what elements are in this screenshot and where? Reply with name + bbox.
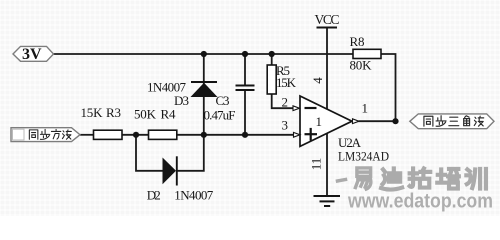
wire R3 to R4 [122, 134, 149, 136]
svg-text:0.47uF: 0.47uF [204, 107, 236, 122]
resistor R8 [353, 49, 381, 58]
svg-text:3V: 3V [22, 46, 42, 63]
wire op-amp output [359, 120, 396, 122]
svg-text:2: 2 [282, 94, 289, 109]
capacitor C3 [236, 86, 255, 91]
power VCC [317, 27, 338, 29]
junction R5 top [269, 51, 275, 57]
wire D2 cathode to node A [177, 135, 204, 171]
junction C3 top [242, 51, 248, 57]
wire port to R3 [80, 134, 94, 136]
port sync square wave (tongbu fangbo) [11, 128, 80, 142]
junction C3 bottom [242, 132, 248, 138]
wire 3V rail [54, 53, 354, 55]
wire D3 branch [203, 54, 205, 135]
svg-text:1N4007: 1N4007 [174, 188, 214, 203]
junction output node [392, 118, 398, 124]
svg-text:R8: R8 [350, 34, 365, 49]
junction D3 top [201, 51, 207, 57]
svg-text:C3: C3 [216, 93, 230, 108]
svg-text:R4: R4 [161, 107, 177, 122]
junction node A [201, 132, 207, 138]
resistor R3 [94, 130, 123, 139]
op-amp U2A [293, 96, 359, 146]
junction R3 R4 D2 [133, 132, 139, 138]
svg-text:D3: D3 [174, 93, 189, 108]
svg-text:VCC: VCC [315, 12, 340, 27]
svg-text:15K: 15K [81, 105, 104, 120]
port 3V [13, 46, 54, 61]
svg-text:1: 1 [316, 114, 323, 129]
wire R8 to output node [381, 54, 396, 121]
svg-text:LM324AD: LM324AD [338, 149, 389, 164]
svg-text:R3: R3 [106, 105, 121, 120]
diode D3 [191, 82, 218, 97]
svg-text:80K: 80K [350, 58, 373, 73]
port sync triangle wave (tongbu sanjiaobo) [410, 114, 494, 129]
svg-text:www.edatop.com: www.edatop.com [347, 190, 493, 213]
wire VCC to pin 4, pin 11 to ground [326, 28, 328, 197]
wire node to D2 anode [136, 135, 163, 171]
wire C3 top lead [244, 54, 246, 85]
svg-text:11: 11 [309, 158, 324, 171]
ground [314, 196, 341, 206]
svg-text:1: 1 [362, 101, 369, 116]
watermark yi di tuo pei xun [338, 168, 486, 190]
svg-text:15K: 15K [276, 75, 297, 90]
svg-text:4: 4 [310, 77, 325, 84]
wire R4 to pin 3 [177, 134, 294, 136]
svg-text:50K: 50K [134, 107, 157, 122]
resistor R5 [267, 65, 276, 94]
resistor R4 [149, 130, 177, 139]
wire C3 bottom lead [244, 90, 246, 135]
wire R5 top lead [271, 54, 273, 65]
diode D2 [163, 156, 177, 185]
svg-text:D2: D2 [147, 188, 161, 203]
svg-text:3: 3 [282, 117, 289, 132]
wire R5 to pin 2 [272, 94, 293, 108]
